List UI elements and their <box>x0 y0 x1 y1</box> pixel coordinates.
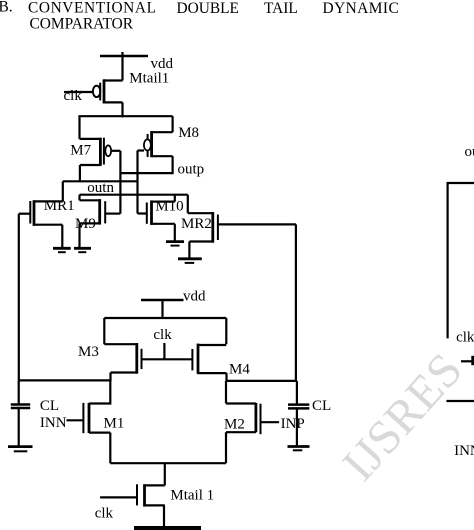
wire latch top rail <box>78 115 172 117</box>
svg-text:DOUBLE: DOUBLE <box>177 0 239 17</box>
ground M9 <box>74 247 91 250</box>
svg-text:MR1: MR1 <box>44 198 75 214</box>
transistor MR1 (NMOS) <box>19 213 31 215</box>
svg-text:outp: outp <box>178 161 205 177</box>
ground CL left <box>8 445 33 448</box>
svg-text:TAIL: TAIL <box>264 0 298 17</box>
capacitor CL (right) <box>296 381 298 405</box>
wire step down to MR1 drain <box>62 181 64 201</box>
svg-text:IJSRES: IJSRES <box>332 343 473 491</box>
capacitor CL (left) <box>18 380 20 404</box>
transistor M8 (PMOS) <box>152 131 173 133</box>
wire M9 drain stub <box>78 195 80 201</box>
transistor Mtail 1 (bottom NMOS) <box>145 484 165 486</box>
right partial figure: gate lead with bar <box>461 360 472 362</box>
transistor M9 (NMOS) <box>80 199 100 201</box>
svg-text:M3: M3 <box>78 344 99 360</box>
svg-text:M10: M10 <box>155 199 183 215</box>
svg-text:M1: M1 <box>104 415 125 431</box>
wire outp cross rail <box>120 172 172 174</box>
wire M8 gate to M10 gate <box>136 151 138 214</box>
svg-text:CL: CL <box>40 398 59 414</box>
heading line 1 <box>0 0 399 32</box>
wire right feedback (MR2 gate to fp) <box>295 224 297 380</box>
wire MR2 drain stub <box>187 195 189 214</box>
transistor M10 (NMOS) <box>138 212 147 214</box>
wire Mtail 1 source to ground <box>163 505 165 526</box>
svg-text:INN: INN <box>40 415 67 431</box>
ground Mtail 1 <box>134 526 201 530</box>
transistor Mtail1 (top PMOS) <box>104 79 123 81</box>
svg-text:CL: CL <box>312 398 331 414</box>
ground MR1 <box>53 247 71 250</box>
svg-text:M9: M9 <box>75 216 96 232</box>
transistor M1 (NMOS) <box>89 402 110 404</box>
wire fp rail <box>227 380 298 382</box>
transistor MR2 (NMOS) <box>188 212 213 214</box>
ground M10 <box>166 240 184 243</box>
svg-text:clk: clk <box>64 88 83 104</box>
svg-text:clk: clk <box>95 506 114 522</box>
wire M10 drain stub <box>174 195 176 202</box>
right partial figure: box corner <box>448 183 474 338</box>
vdd rail (stage 1) <box>141 299 184 302</box>
wire M8 drain down <box>172 156 174 174</box>
svg-text:M2: M2 <box>224 417 245 433</box>
wire M3 drain down <box>109 373 111 382</box>
node clk tick <box>163 343 165 359</box>
wire M4 drain down <box>225 373 227 382</box>
svg-text:MR2: MR2 <box>181 216 212 232</box>
svg-text:M4: M4 <box>229 361 250 377</box>
svg-text:B.: B. <box>0 0 13 15</box>
svg-text:Mtail 1: Mtail 1 <box>170 488 214 504</box>
wire M2 drain up to fp <box>225 381 227 404</box>
svg-text:INN: INN <box>454 443 474 459</box>
ground MR2 <box>178 257 202 260</box>
svg-text:Mtail1: Mtail1 <box>129 70 169 86</box>
node vdd wire <box>121 52 123 81</box>
svg-text:M7: M7 <box>70 142 91 158</box>
wire MR1 source to ground <box>61 225 63 248</box>
wire left feedback (MR1 gate to fn) <box>18 214 20 381</box>
wire left down to M7 <box>78 116 80 139</box>
svg-text:DYNAMIC: DYNAMIC <box>323 0 400 17</box>
svg-text:clk: clk <box>456 330 474 346</box>
watermark IJSRES <box>332 343 473 491</box>
wire outn rail <box>63 180 138 182</box>
wire fn rail <box>19 379 111 381</box>
svg-text:INP: INP <box>281 416 305 432</box>
svg-text:M8: M8 <box>178 125 199 141</box>
right partial figure: wire <box>446 400 474 402</box>
wire clk gate rail <box>142 358 193 360</box>
wire common source rail <box>110 462 226 464</box>
transistor M3 (NMOS) <box>104 343 137 345</box>
wire M9 source to ground <box>78 223 80 247</box>
svg-text:clk: clk <box>153 327 172 343</box>
wire MR2 source to ground <box>188 242 190 259</box>
wire stage1 top rail <box>104 317 226 319</box>
svg-text:out: out <box>465 144 474 160</box>
wire M1 drain up to fn <box>109 380 111 404</box>
wire Mtail1 drain down <box>121 102 123 117</box>
svg-text:COMPARATOR: COMPARATOR <box>30 15 134 32</box>
svg-text:vdd: vdd <box>183 288 206 304</box>
wire right down to M8 <box>172 116 174 132</box>
wire tail node down to Mtail 1 <box>164 463 166 485</box>
svg-text:CONVENTIONAL: CONVENTIONAL <box>28 0 157 17</box>
ground CL right <box>288 445 310 448</box>
wire M10 source to ground <box>174 224 176 241</box>
transistor M4 (NMOS) <box>198 344 226 346</box>
transistor M7 (PMOS) <box>80 138 101 140</box>
svg-text:outn: outn <box>87 180 114 196</box>
wire M7 drain down <box>79 165 81 181</box>
svg-text:vdd: vdd <box>151 56 174 72</box>
transistor M2 (NMOS) <box>226 402 256 404</box>
vdd rail (top) <box>100 55 148 58</box>
wire M7 gate to M9 gate <box>119 151 121 214</box>
wire M2 source down <box>225 432 227 463</box>
wire M1 source down <box>109 433 111 464</box>
wire mid rail B <box>80 194 188 196</box>
